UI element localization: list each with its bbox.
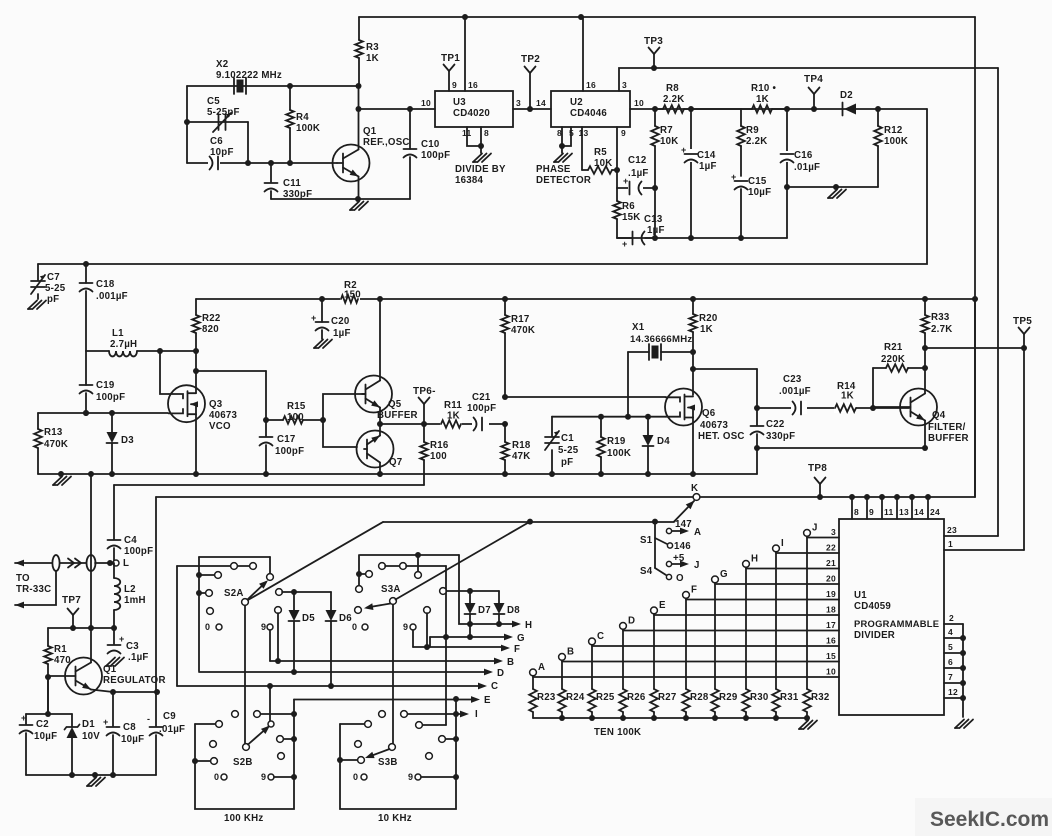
wire U3 pin16 to rail: [464, 17, 466, 91]
wire G row drop: [429, 637, 431, 647]
svg-text:15K: 15K: [622, 212, 641, 223]
wire S2A left column: [198, 557, 200, 671]
svg-text:TP5: TP5: [1013, 316, 1032, 327]
svg-text:TO: TO: [16, 573, 30, 584]
capacitor C8: [107, 726, 120, 728]
svg-text:S3B: S3B: [378, 757, 398, 768]
resistor R4: [289, 86, 291, 110]
svg-text:820: 820: [202, 324, 219, 335]
resistor R27 zig: [650, 689, 658, 712]
junction TP2 / signal: [527, 106, 533, 112]
svg-text:Q4: Q4: [932, 410, 946, 421]
wire D1 bottom lead: [71, 738, 73, 775]
junction rail x686: [683, 715, 689, 721]
junction S3B right nine: [453, 774, 459, 780]
contact S3B nine: [415, 774, 421, 780]
capacitor C10: [404, 148, 417, 150]
svg-text:TEN 100K: TEN 100K: [594, 727, 641, 738]
wire B column top: [561, 660, 563, 689]
junction R18 bottom: [502, 471, 508, 477]
contact S3A nine: [410, 624, 416, 630]
wire S2A row2 link: [238, 565, 250, 567]
wire control voltage feedback: [38, 109, 927, 264]
svg-text:L: L: [123, 558, 129, 569]
wire D column top: [622, 629, 624, 689]
svg-text:21: 21: [826, 558, 836, 568]
svg-text:X1: X1: [632, 322, 645, 333]
junction S2B right r3: [291, 736, 297, 742]
junction L1 / gate2 branch: [157, 348, 163, 354]
wire C22 bottom: [756, 434, 758, 448]
junction D8 / H row: [496, 621, 502, 627]
contact S2A stub2: [206, 590, 213, 597]
resistor R11 zig: [441, 420, 461, 428]
wire S1 riser to K: [674, 501, 694, 522]
contact A staircase: [530, 669, 537, 676]
svg-text:13: 13: [899, 507, 909, 517]
svg-text:C7: C7: [47, 272, 60, 283]
junction D4 bottom: [645, 471, 651, 477]
capacitor C6 mask: [208, 156, 220, 170]
wire column x270: [269, 686, 271, 721]
wire S2A wiper arm: [248, 582, 267, 600]
svg-text:20: 20: [826, 574, 836, 584]
svg-text:B: B: [567, 647, 574, 658]
wire R33 to R21: [924, 348, 926, 368]
wire F column top: [685, 598, 687, 689]
svg-text:1K: 1K: [756, 94, 769, 105]
svg-text:330pF: 330pF: [766, 431, 795, 442]
wire F row: [413, 646, 502, 648]
svg-text:U3: U3: [453, 97, 466, 108]
junction pin 12: [960, 695, 966, 701]
wire C1 bottom lead: [551, 450, 553, 474]
junction S2B left r2: [192, 758, 198, 764]
junction Q5 collector top: [377, 296, 383, 302]
svg-text:TR-33C: TR-33C: [16, 584, 51, 595]
junction D7 top: [467, 588, 473, 594]
svg-text:1K: 1K: [447, 411, 460, 422]
svg-text:0: 0: [353, 772, 358, 782]
wire D5 top lead: [293, 592, 295, 610]
svg-text:R20: R20: [699, 313, 718, 324]
svg-text:E: E: [484, 695, 491, 706]
svg-text:R6: R6: [622, 201, 635, 212]
wire +5 arrow: [672, 563, 681, 565]
wire R21 left leg: [872, 368, 874, 408]
resistor R17: [504, 299, 506, 315]
wire S3A col b leg: [426, 613, 428, 647]
svg-text:C21: C21: [472, 392, 491, 403]
svg-text:BUFFER: BUFFER: [377, 410, 418, 421]
svg-text:100 KHz: 100 KHz: [224, 813, 263, 824]
wire C12 row: [617, 187, 655, 189]
svg-text:1K: 1K: [366, 53, 379, 64]
junction S2B right nine: [291, 774, 297, 780]
wire 147 arrow: [672, 530, 681, 532]
contact S3A lone1: [355, 607, 362, 614]
capacitor C14 mask: [684, 149, 699, 162]
junction C8 ground: [110, 772, 116, 778]
contact S2B r2c: [278, 753, 285, 760]
wire TP4 stem: [813, 94, 815, 109]
junction R15 left: [263, 417, 269, 423]
capacitor C12 mask: [628, 181, 643, 195]
wire Q1 base row: [187, 162, 337, 164]
wire U2 pin13 stub: [581, 127, 583, 170]
capacitor C22: [751, 425, 764, 427]
wire C row: [177, 685, 479, 687]
svg-text:.001µF: .001µF: [779, 386, 811, 397]
junction D6 / C row: [328, 683, 334, 689]
wire coax shield return: [15, 571, 56, 605]
resistor R12: [877, 109, 879, 126]
svg-text:0: 0: [214, 772, 219, 782]
junction R12 top: [875, 106, 881, 112]
contact E staircase: [651, 607, 658, 614]
capacitor C16: [781, 153, 794, 155]
wire pin23 rail x998: [997, 68, 999, 536]
svg-text:13: 13: [579, 128, 589, 138]
wire S3A stub1: [359, 573, 365, 575]
junction S3B top E row: [453, 696, 459, 702]
transistor Q5 buffer: [355, 376, 392, 413]
contact S2B nine: [268, 774, 274, 780]
svg-text:TP8: TP8: [808, 463, 827, 474]
wire Q3 gate2 row: [38, 412, 168, 414]
svg-text:2: 2: [949, 613, 954, 623]
svg-text:16384: 16384: [455, 175, 484, 186]
arrowhead antenna bottom: [15, 602, 24, 609]
svg-text:Q6: Q6: [702, 408, 716, 419]
wire D5 bottom lead: [293, 621, 295, 672]
junction Q1 collector node: [356, 106, 362, 112]
wire TP6 row: [380, 423, 505, 425]
svg-text:Q5: Q5: [388, 399, 402, 410]
wire S4 arm: [655, 568, 666, 575]
resistor R14 mask: [834, 402, 856, 413]
svg-text:9: 9: [452, 80, 457, 90]
capacitor C19: [80, 384, 93, 386]
wire U3 ground stem: [480, 146, 482, 153]
capacitor C18: [80, 282, 93, 284]
svg-text:I: I: [781, 538, 784, 549]
capacitor C16 mask: [780, 151, 794, 162]
svg-text:3: 3: [516, 98, 521, 108]
svg-text:D: D: [497, 668, 504, 679]
svg-text:24: 24: [930, 507, 940, 517]
wire X1 row left: [628, 351, 649, 353]
svg-text:146: 146: [674, 541, 691, 552]
arrowhead S3A wiper: [363, 603, 373, 611]
svg-text:100: 100: [430, 451, 447, 462]
svg-text:X2: X2: [216, 59, 228, 70]
junction R5 / pin9 column: [614, 167, 620, 173]
svg-text:TP2: TP2: [521, 54, 540, 65]
svg-text:K: K: [691, 483, 698, 494]
junction pin 5: [960, 650, 966, 656]
ground VCO rail: [53, 477, 62, 486]
contact S3A pos1: [415, 572, 422, 579]
wire emitter return row: [757, 447, 925, 449]
contact S3B r2c: [426, 753, 433, 760]
contact G staircase: [712, 576, 719, 583]
junction K row pin 24: [925, 494, 931, 500]
svg-text:10K: 10K: [594, 158, 613, 169]
svg-text:pF: pF: [47, 294, 59, 305]
svg-text:10: 10: [634, 98, 644, 108]
svg-text:2.7K: 2.7K: [931, 324, 952, 335]
wire S2A to S1 row: [383, 521, 674, 523]
svg-text:R29: R29: [719, 692, 738, 703]
wire C4 branch: [113, 485, 115, 539]
svg-text:U1: U1: [854, 590, 867, 601]
junction K row pin 11: [879, 494, 885, 500]
wire pin row I: [776, 552, 839, 554]
svg-text:+: +: [311, 313, 317, 323]
svg-text:10K: 10K: [660, 136, 679, 147]
svg-text:F: F: [691, 585, 697, 596]
contact column B upper: [275, 607, 282, 614]
svg-text:TP3: TP3: [644, 36, 663, 47]
contact D5 rail: [276, 589, 283, 596]
svg-text:S2A: S2A: [224, 588, 244, 599]
wire U3 pins 11-8 bracket: [467, 127, 481, 146]
capacitor C12: [629, 182, 631, 195]
IC U1 CD4059 box: [839, 519, 944, 715]
contact C staircase: [589, 638, 596, 645]
junction S3A top: [415, 552, 421, 558]
wire TP5 stem: [1023, 334, 1025, 348]
junction K row pin 13: [894, 494, 900, 500]
svg-text:10V: 10V: [82, 731, 100, 742]
contact S2A lone1: [207, 608, 214, 615]
testpoint TP3: [649, 48, 655, 55]
contact 147: [666, 528, 671, 533]
wire pin row J: [807, 537, 839, 539]
junction rail x715: [712, 715, 718, 721]
wire R24 bottom lead: [561, 712, 563, 718]
arrowhead +5 J: [680, 561, 689, 568]
wire Q5 emitter to Q7 collector: [379, 408, 381, 436]
wire loop filter top row: [630, 108, 927, 110]
wire D4 bottom lead: [647, 446, 649, 474]
svg-text:10pF: 10pF: [210, 147, 234, 158]
wire S2B r1c stub: [261, 713, 294, 715]
wire Q6 gate2 row: [552, 416, 666, 418]
arrowhead antenna top: [15, 560, 24, 567]
contact S2B target: [268, 721, 274, 727]
wire S3A left column: [358, 555, 360, 585]
junction TP5 / pin1 column: [1021, 345, 1027, 351]
contact S2A nine: [267, 624, 273, 630]
wire U1 pin 11 stub: [881, 497, 883, 519]
svg-text:R1: R1: [54, 644, 67, 655]
resistor R9: [740, 109, 742, 126]
wire S3B pos link: [423, 724, 446, 726]
svg-text:O: O: [676, 573, 684, 584]
junction D4 top: [645, 414, 651, 420]
junction R20 top: [690, 296, 696, 302]
wire collector to U3 pin10: [359, 108, 436, 110]
transistor Q1 ref osc: [333, 145, 370, 182]
wire regulator top row: [48, 627, 114, 629]
capacitor C7 variable: [31, 280, 45, 282]
wire pin row E: [654, 614, 839, 616]
svg-text:C19: C19: [96, 380, 115, 391]
junction R17 top: [502, 296, 508, 302]
arrowhead S2B wiper: [261, 723, 272, 734]
junction U3 pin8 ground: [478, 143, 484, 149]
coax chevron 2: [75, 559, 81, 568]
junction rail x807: [804, 715, 810, 721]
svg-text:D5: D5: [302, 613, 315, 624]
svg-text:40673: 40673: [700, 420, 729, 431]
svg-text:.1µF: .1µF: [128, 652, 149, 663]
junction drain / C22 branch: [690, 366, 696, 372]
wire base row Q4: [873, 407, 909, 409]
svg-text:R23: R23: [537, 692, 556, 703]
svg-text:S2B: S2B: [233, 757, 253, 768]
svg-text:.001µF: .001µF: [96, 291, 128, 302]
svg-text:R3: R3: [366, 42, 379, 53]
svg-text:5: 5: [948, 642, 953, 652]
resistor R29 zig: [711, 689, 719, 712]
capacitor C17: [260, 436, 273, 438]
junction K row pin 8: [849, 494, 855, 500]
ground loop filter: [828, 190, 837, 199]
wire D1 top lead: [71, 714, 73, 727]
wire U2 ground stem: [561, 146, 563, 153]
wire S3A wiper arm: [367, 604, 391, 608]
junction pin 4: [960, 635, 966, 641]
transistor Q6 het osc: [665, 389, 702, 426]
wire C10 top lead: [409, 109, 411, 149]
wire crystal X2 row: [187, 85, 359, 87]
contact S3A row2 b: [400, 563, 407, 570]
wiper S3A: [390, 598, 397, 605]
junction Q3 drain / R15 branch: [193, 368, 199, 374]
svg-text:40673: 40673: [209, 410, 238, 421]
contact S2A pos1: [267, 574, 274, 581]
wire S2A stub1: [199, 574, 214, 576]
wire TP5 row: [925, 347, 1024, 349]
arrowhead K: [686, 498, 697, 509]
wire C2 top lead: [25, 714, 27, 724]
junction R14 / R21 node: [870, 405, 876, 411]
junction C9 column / emitter row: [154, 689, 160, 695]
svg-text:C15: C15: [748, 176, 767, 187]
junction D7 / G row: [467, 634, 473, 640]
svg-text:9: 9: [869, 507, 874, 517]
wire U1 pin 13 stub: [896, 497, 898, 519]
junction rail to regulator column: [88, 471, 94, 477]
svg-text:TP4: TP4: [804, 74, 823, 85]
wire U1 pin2 stub: [944, 623, 963, 625]
inductor L2: [114, 578, 120, 610]
contact S2A row2 b: [250, 563, 257, 570]
junction pin 7: [960, 680, 966, 686]
junction C16 / ground row: [784, 184, 790, 190]
svg-text:2.2K: 2.2K: [663, 94, 684, 105]
svg-text:9: 9: [261, 622, 266, 632]
svg-text:47K: 47K: [512, 451, 531, 462]
wire D3 bottom lead: [111, 443, 113, 474]
svg-text:R11: R11: [444, 400, 462, 411]
wire S2A wiper diagonal: [248, 522, 383, 600]
arrowhead 147 A: [680, 528, 689, 535]
junction S2A stub1: [196, 572, 202, 578]
wire R30 bottom lead: [745, 712, 747, 718]
wire S2A stub2: [199, 592, 205, 594]
wire L node row: [95, 562, 111, 564]
wire S3B nine stub: [421, 776, 456, 778]
svg-text:+: +: [681, 145, 687, 155]
svg-text:DIVIDE BY: DIVIDE BY: [455, 164, 506, 175]
svg-text:R26: R26: [627, 692, 646, 703]
junction x975 / R2 rail: [972, 296, 978, 302]
junction C20 top: [319, 296, 325, 302]
wire C2 bottom lead: [25, 733, 27, 775]
switch box S3B outline: [340, 699, 456, 809]
ground C3: [106, 658, 115, 667]
svg-text:L1: L1: [112, 328, 124, 339]
junction X2 row / R4: [287, 83, 293, 89]
ground oscillator: [350, 202, 359, 211]
wire C14 column: [690, 109, 692, 238]
svg-text:19: 19: [826, 589, 836, 599]
wire U2 pins 8-5 bracket: [562, 127, 571, 146]
svg-text:15: 15: [826, 651, 836, 661]
resistor R2 mask: [340, 293, 360, 304]
svg-text:10: 10: [826, 667, 836, 677]
wire C17 bottom lead: [265, 445, 267, 474]
junction rail x592: [589, 715, 595, 721]
svg-text:1µF: 1µF: [699, 161, 717, 172]
wire S2A right stub: [269, 557, 271, 573]
wire S2A top rail: [199, 556, 270, 558]
wire TP2 stem: [529, 73, 531, 109]
testpoint TP6: [419, 398, 425, 405]
junction rail x746: [743, 715, 749, 721]
contact S2B r1c: [254, 711, 261, 718]
wire S3B r1a stub: [340, 723, 364, 725]
capacitor C23: [793, 402, 796, 415]
wiper S2B: [243, 744, 250, 751]
svg-text:100pF: 100pF: [421, 150, 450, 161]
svg-text:C14: C14: [697, 150, 716, 161]
svg-text:2.7µH: 2.7µH: [110, 339, 137, 350]
wire L1 to Q3 gate1: [160, 351, 168, 394]
svg-text:C8: C8: [123, 722, 136, 733]
svg-text:C12: C12: [628, 155, 647, 166]
wire Q5 base branch: [323, 394, 366, 447]
svg-text:B: B: [507, 657, 514, 668]
junction rail x654: [651, 715, 657, 721]
svg-text:SeekIC.com: SeekIC.com: [930, 808, 1049, 831]
svg-text:A: A: [538, 662, 545, 673]
wire X1 row right: [661, 351, 693, 353]
testpoint TP4: [809, 88, 815, 95]
wire C8 top lead: [112, 692, 114, 726]
svg-text:9.102222 MHz: 9.102222 MHz: [216, 70, 282, 81]
wire column x446: [445, 566, 447, 725]
svg-text:23: 23: [947, 525, 957, 535]
svg-text:J: J: [694, 560, 700, 571]
svg-text:9: 9: [408, 772, 413, 782]
wire B row: [270, 660, 497, 662]
svg-text:R19: R19: [607, 436, 626, 447]
